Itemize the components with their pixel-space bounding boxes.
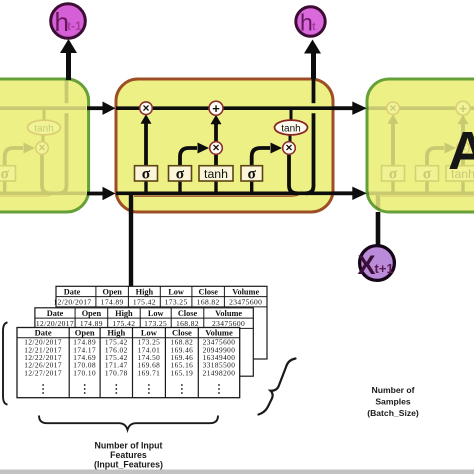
wire arrow h-line exit xyxy=(333,191,353,195)
svg-text:169.71: 169.71 xyxy=(138,368,161,377)
node h(t-1) circle xyxy=(51,4,86,39)
svg-text:t+1: t+1 xyxy=(375,261,394,276)
svg-text:Open: Open xyxy=(82,309,102,318)
svg-text:Features: Features xyxy=(110,450,147,460)
svg-text:12/27/2017: 12/27/2017 xyxy=(24,368,62,377)
node X(t+1) circle xyxy=(360,246,395,281)
svg-text:21498200: 21498200 xyxy=(203,368,236,377)
wire arrow h-line entry xyxy=(87,192,103,196)
table middle xyxy=(35,308,253,376)
svg-text:23475600: 23475600 xyxy=(229,298,262,307)
svg-text:175.42: 175.42 xyxy=(133,298,156,307)
wire to X(t+1) xyxy=(376,212,381,246)
svg-text:h: h xyxy=(300,10,313,36)
wire arrow C-line entry xyxy=(87,106,103,110)
svg-text:t: t xyxy=(312,21,316,33)
table back xyxy=(53,286,267,359)
bottom gray strip xyxy=(0,470,474,474)
box next cell (right) xyxy=(367,79,474,212)
wire arrow to h(t-1) xyxy=(66,51,71,80)
svg-text:Number of: Number of xyxy=(372,385,415,395)
svg-text:170.10: 170.10 xyxy=(73,368,96,377)
svg-text:(Batch_Size): (Batch_Size) xyxy=(367,408,419,418)
svg-text:A: A xyxy=(448,121,474,181)
svg-text:Date: Date xyxy=(64,287,81,296)
svg-text:Date: Date xyxy=(47,309,64,318)
brace samples diagonal xyxy=(259,359,296,415)
svg-text:Volume: Volume xyxy=(215,309,242,318)
svg-text:Close: Close xyxy=(172,328,192,338)
svg-text:Open: Open xyxy=(103,287,123,296)
brace left bracket xyxy=(3,323,8,405)
svg-text:Volume: Volume xyxy=(205,328,233,338)
svg-text:Close: Close xyxy=(178,309,198,318)
svg-text:t-1: t-1 xyxy=(67,19,82,33)
svg-text:12/20/2017: 12/20/2017 xyxy=(53,298,91,307)
wire cell to tables xyxy=(129,213,133,286)
wire arrow to h(t) xyxy=(311,52,316,79)
svg-text:X: X xyxy=(358,250,376,280)
svg-text:173.25: 173.25 xyxy=(165,298,188,307)
table front xyxy=(17,328,240,398)
svg-text:High: High xyxy=(115,309,133,318)
svg-text:(Input_Features): (Input_Features) xyxy=(94,460,163,470)
svg-text:Low: Low xyxy=(141,328,158,338)
box LSTM cell (center) xyxy=(116,79,333,212)
node h(t) circle xyxy=(296,7,325,36)
svg-text:High: High xyxy=(136,287,154,296)
svg-text:Open: Open xyxy=(75,328,95,338)
brace underbrace bottom xyxy=(39,416,218,430)
svg-text:Low: Low xyxy=(148,309,164,318)
ghost internals left xyxy=(0,79,86,214)
label input features xyxy=(94,441,163,470)
svg-text:Close: Close xyxy=(199,287,219,296)
svg-text:Low: Low xyxy=(168,287,184,296)
svg-text:168.82: 168.82 xyxy=(197,298,220,307)
svg-text:Samples: Samples xyxy=(375,397,411,407)
svg-text:Volume: Volume xyxy=(232,287,259,296)
wire arrow C-line exit xyxy=(333,106,353,110)
svg-text:Date: Date xyxy=(35,328,52,338)
cell internals xyxy=(116,79,333,214)
svg-text:Number of Input: Number of Input xyxy=(95,441,163,451)
vdots row xyxy=(42,384,220,394)
svg-text:170.78: 170.78 xyxy=(105,368,128,377)
svg-text:174.89: 174.89 xyxy=(101,298,124,307)
box previous cell (left) xyxy=(0,79,89,212)
svg-text:165.19: 165.19 xyxy=(171,368,194,377)
svg-text:High: High xyxy=(107,328,125,338)
label batch size xyxy=(367,385,419,418)
ghost internals right xyxy=(363,79,474,214)
